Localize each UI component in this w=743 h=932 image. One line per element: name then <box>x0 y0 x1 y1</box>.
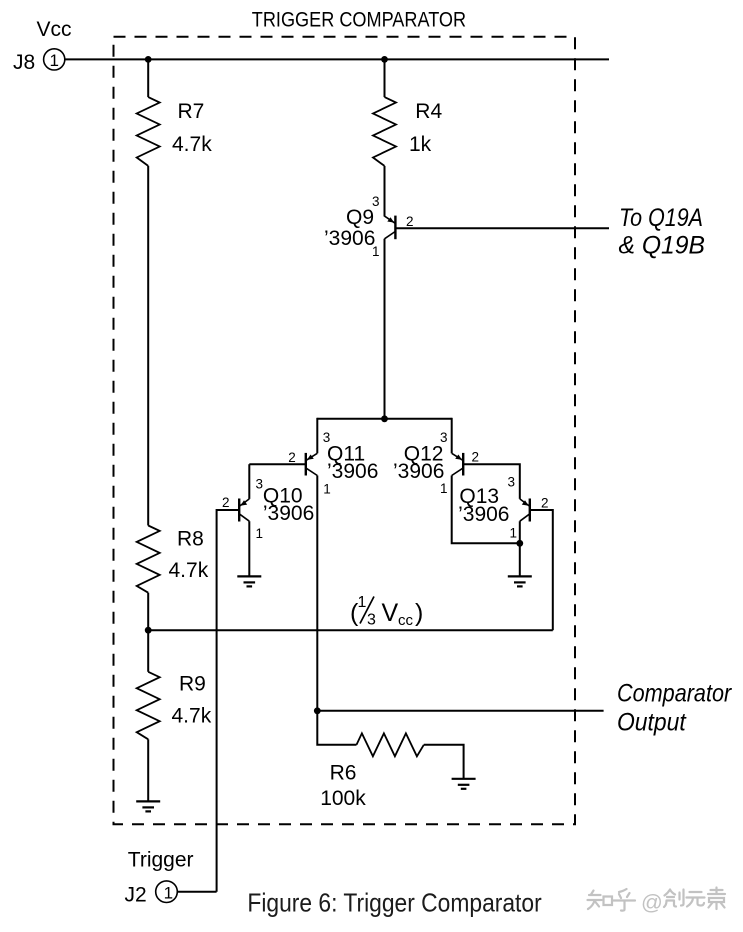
svg-text:1: 1 <box>372 244 380 259</box>
svg-text:R4: R4 <box>415 100 442 123</box>
wire Q10 base to trigger column <box>217 510 240 892</box>
ground below Q13 <box>508 576 532 586</box>
ground below Q10 <box>237 576 261 586</box>
wire J2 to trigger column <box>177 891 216 893</box>
svg-text:Comparator: Comparator <box>617 680 733 708</box>
wire common emitter rail <box>317 418 451 420</box>
wire Q12 base to Q13 emitter <box>463 464 520 499</box>
watermark zhihu <box>588 888 726 915</box>
wire Q12 collector to ground node <box>452 476 520 544</box>
resistor R9 4.7k <box>137 672 212 740</box>
svg-text:4.7k: 4.7k <box>172 705 212 728</box>
wire Q9 base to right edge <box>395 227 609 229</box>
svg-text:’3906: ’3906 <box>393 460 444 483</box>
wire comparator output <box>317 710 603 712</box>
wire Q9 collector down to emitter rail <box>384 239 386 419</box>
wire Q10 collector to ground <box>248 521 250 576</box>
svg-text:2: 2 <box>472 450 480 465</box>
svg-text:4.7k: 4.7k <box>172 133 212 156</box>
connector J2 pin 1 circle <box>156 881 178 903</box>
wire Vcc rail to R4 <box>384 59 386 97</box>
wire R8 bottom to junction <box>147 593 149 631</box>
svg-text:To Q19A: To Q19A <box>619 204 703 232</box>
wire Q13 base to one-third Vcc rail <box>530 510 553 630</box>
svg-text:Trigger: Trigger <box>128 848 194 871</box>
node junction dot one-third Vcc <box>145 627 152 634</box>
wire output node down to R6 <box>317 711 356 745</box>
svg-text:1: 1 <box>358 594 367 611</box>
svg-text:2: 2 <box>406 214 414 229</box>
transistor Q10 '3906 <box>222 464 314 541</box>
wire junction to R9 <box>147 630 149 672</box>
dashed enclosure border <box>114 37 576 825</box>
svg-text:J2: J2 <box>125 884 147 907</box>
node junction dot comparator output <box>314 707 321 714</box>
wire Q11 collector down to output node <box>316 476 318 711</box>
svg-text:1: 1 <box>510 526 518 541</box>
svg-text:TRIGGER COMPARATOR: TRIGGER COMPARATOR <box>252 9 466 32</box>
svg-text:2: 2 <box>541 496 549 511</box>
node junction dot at R4 top <box>381 56 388 63</box>
svg-text:3: 3 <box>256 476 264 491</box>
resistor R8 4.7k <box>137 526 209 593</box>
svg-text:Vcc: Vcc <box>37 18 72 41</box>
wire R6 to ground <box>424 745 464 779</box>
svg-text:’3906: ’3906 <box>263 502 314 525</box>
wire R9 bottom to ground <box>147 739 149 801</box>
svg-text:R7: R7 <box>178 100 205 123</box>
transistor Q11 '3906 <box>288 418 378 497</box>
svg-text:’3906: ’3906 <box>458 503 509 526</box>
svg-text:4.7k: 4.7k <box>169 559 209 582</box>
svg-text:cc: cc <box>398 612 414 629</box>
svg-text:& Q19B: & Q19B <box>619 232 706 260</box>
transistor Q12 '3906 <box>393 418 479 496</box>
svg-text:3: 3 <box>440 430 448 445</box>
node junction dot Q12/Q13 collectors <box>516 540 523 547</box>
svg-text:1: 1 <box>164 883 173 902</box>
svg-text:Q9: Q9 <box>346 206 374 229</box>
connector J8 pin 1 circle <box>44 49 65 70</box>
svg-text:3: 3 <box>508 475 516 490</box>
svg-text:R8: R8 <box>177 527 204 550</box>
svg-text:1: 1 <box>49 51 58 70</box>
svg-text:’3906: ’3906 <box>327 460 378 483</box>
wire Q13 collector to ground <box>519 521 521 576</box>
svg-text:1: 1 <box>323 482 331 497</box>
ground below R9 <box>136 801 160 811</box>
svg-text:3: 3 <box>323 430 331 445</box>
svg-text:2: 2 <box>288 450 296 465</box>
svg-text:Figure 6: Trigger Comparator: Figure 6: Trigger Comparator <box>247 887 542 917</box>
wire R7 bottom to R8 top <box>147 166 149 526</box>
svg-text:1: 1 <box>256 526 264 541</box>
wire Q11 base to Q10 emitter <box>249 463 305 465</box>
node junction dot emitter rail <box>381 415 388 422</box>
svg-text:1k: 1k <box>409 133 432 156</box>
svg-text:’3906: ’3906 <box>324 227 375 250</box>
svg-text:1: 1 <box>440 481 448 496</box>
svg-text:R6: R6 <box>330 762 357 785</box>
svg-text:3: 3 <box>367 612 376 629</box>
label To Q19A & Q19B <box>619 204 706 259</box>
wire Vcc rail to R7 <box>147 59 149 97</box>
label (1/3 Vcc) <box>350 594 423 629</box>
svg-text:J8: J8 <box>13 51 35 74</box>
svg-text:@: @ <box>641 891 663 915</box>
svg-text:): ) <box>415 599 423 627</box>
svg-text:100k: 100k <box>320 787 366 810</box>
node junction dot at R7 top <box>145 56 152 63</box>
svg-text:3: 3 <box>372 194 380 209</box>
label Comparator Output <box>617 680 733 737</box>
wire R4 bottom to Q9 emitter <box>384 166 386 217</box>
transistor Q13 '3906 <box>458 475 548 541</box>
resistor R6 100k <box>320 733 424 810</box>
transistor Q9 '3906 <box>324 194 414 259</box>
wire top Vcc rail <box>65 58 609 60</box>
resistor R4 1k <box>373 97 442 166</box>
ground below R6 <box>452 779 476 789</box>
svg-text:R9: R9 <box>179 673 206 696</box>
svg-text:2: 2 <box>222 495 230 510</box>
svg-text:Output: Output <box>617 708 687 736</box>
svg-text:V: V <box>382 599 399 627</box>
wire one-third Vcc rail <box>148 629 553 631</box>
resistor R7 4.7k <box>137 97 212 166</box>
